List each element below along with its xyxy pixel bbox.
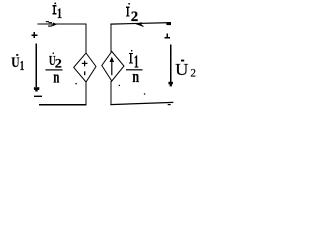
svg-text:U: U (11, 54, 20, 71)
minus mark (vertical bar) inside diamond (84, 71, 86, 75)
port1 plus sign (31, 32, 37, 38)
label I1 (İ₁) (52, 3, 62, 22)
voltage arrow U1 (downward) (34, 44, 39, 92)
stray dot right of right diamond bottom (119, 85, 120, 86)
svg-text:1: 1 (20, 58, 25, 73)
wire bottom-left conductor (39, 104, 87, 106)
wire: right mesh left branch (top) (110, 24, 112, 53)
wire top-left (port 1 top conductor) (37, 23, 86, 25)
terminal blob at right end of top wire (166, 22, 171, 25)
plus mark inside diamond (82, 62, 88, 64)
current arrow I2 on top-right wire (pointing left) (136, 22, 144, 26)
arrow inside (pointing up) (111, 61, 113, 76)
label U2 (U̇₂) right port (175, 59, 196, 79)
svg-text:2: 2 (190, 67, 196, 79)
dependent voltage source U2/n (diamond) (74, 53, 96, 82)
wire bottom-right conductor (slightly skewed) (110, 102, 173, 104)
svg-text:1: 1 (57, 5, 62, 21)
svg-text:n: n (53, 68, 59, 87)
label I2 (İ₂) (126, 3, 138, 25)
svg-text:U: U (175, 59, 188, 78)
port1 minus sign (34, 96, 42, 97)
label U2/n fraction (controlling value of left source) (46, 53, 63, 88)
port2 minus sign (168, 104, 171, 105)
current arrow I1 on top wire (46, 21, 58, 27)
dependent current source I1/n (diamond) (102, 52, 124, 82)
svg-text:n: n (132, 68, 140, 86)
wire below right diamond (110, 81, 112, 105)
port2 plus sign (⊥ shaped) (165, 33, 171, 38)
svg-text:2: 2 (131, 9, 139, 25)
wire below left diamond (85, 82, 87, 106)
wire top-right conductor (slightly skewed up to the right) (110, 23, 171, 25)
stray dot above bottom-right wire (144, 93, 145, 94)
label U1 (U̇₁) (11, 54, 24, 74)
stray dot left of left diamond bottom (75, 83, 76, 84)
node/wire: right branch of left mesh (to diamond) (85, 24, 87, 54)
voltage arrow U2 (downward) (168, 44, 173, 86)
label I1/n fraction (controlling value of right source) (126, 50, 143, 87)
